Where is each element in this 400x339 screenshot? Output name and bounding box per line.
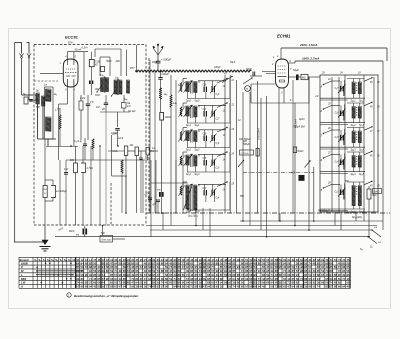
antenna input jack 1: [15, 43, 24, 96]
svg-text:98: 98: [249, 285, 253, 289]
svg-text:Bestimmungszeichen „a“ dEmpfan: Bestimmungszeichen „a“ dEmpfangsgeraten: [74, 294, 139, 298]
svg-text:74: 74: [148, 285, 152, 289]
svg-text:66: 66: [266, 281, 270, 285]
capacitor C8 200uF: [158, 71, 163, 90]
wire rect row links: [108, 150, 158, 152]
noise filter box 5nF1000: [100, 226, 125, 243]
decoupling capacitor block 500uF: [291, 172, 305, 181]
wire risers bottom mid: [143, 160, 183, 213]
row wires L3: [183, 128, 230, 148]
component box REPULS: [240, 150, 254, 155]
svg-text:500μF BM: 500μF BM: [294, 126, 305, 129]
svg-text:73: 73: [275, 285, 279, 289]
oscillator switch right SR3b: [364, 126, 380, 133]
switch end S8: [367, 236, 381, 249]
svg-text:94: 94: [258, 269, 262, 273]
svg-text:Sp₃4: Sp₃4: [351, 173, 357, 176]
svg-text:12nF: 12nF: [118, 138, 124, 140]
oscillator row wires 1: [320, 79, 365, 101]
bus drop wires: [151, 208, 369, 237]
band switch contact SL2: [217, 102, 235, 112]
input winding arrow 3: [179, 131, 185, 142]
bus wire y225.5: [146, 225, 377, 227]
antenna coil L2: [42, 96, 45, 106]
svg-text:47: 47: [203, 285, 207, 289]
oscillator winding labels 5: [351, 211, 365, 213]
svg-text:66: 66: [161, 261, 165, 265]
ground symbol: [40, 225, 51, 251]
wavy bus feed wire: [136, 45, 138, 71]
tube V2 ECH81 envelope: [276, 59, 289, 88]
svg-text:4,8: 4,8: [127, 105, 131, 108]
capacitor C6 0.1uF: [74, 138, 87, 160]
switch M1 arm: [243, 77, 253, 84]
svg-text:58: 58: [211, 285, 215, 289]
V2 electrodes: [278, 66, 287, 82]
svg-text:98: 98: [334, 285, 338, 289]
svg-text:+M: +M: [315, 96, 318, 98]
resistor R5b near osc: [293, 147, 304, 153]
capacitor CL51: [203, 187, 208, 196]
input winding arrow 4: [179, 156, 185, 167]
bus wires center: [243, 81, 267, 213]
wires coil assembly: [36, 95, 56, 146]
padder capacitor RB 550uF: [243, 140, 250, 146]
capacitor C11 pair: [139, 151, 143, 213]
row wires L1: [183, 79, 230, 99]
capacitor CL11: [203, 85, 208, 93]
wires R8/C14: [45, 139, 53, 225]
capacitor C15 4.7k bracket: [81, 146, 93, 226]
oscillator left risers: [295, 77, 314, 213]
svg-text:1kAO: 1kAO: [374, 191, 380, 194]
trim capacitor CL12: [210, 85, 220, 97]
band transformer core 2: [191, 105, 193, 118]
oscillator switch right SR4b: [364, 151, 380, 158]
table header row text: [20, 258, 351, 262]
svg-text:74: 74: [232, 285, 236, 289]
band coil L2a (variable): [184, 105, 193, 117]
resistor R3 1000: [160, 113, 171, 214]
capacitor C4 12nF: [112, 129, 120, 147]
winding labels row 4: [186, 174, 200, 176]
oscillator padder capacitor CR4: [335, 158, 346, 167]
winding labels row 1: [186, 101, 200, 103]
svg-text:65: 65: [127, 281, 131, 285]
svg-text:49: 49: [203, 277, 207, 281]
svg-text:60nF: 60nF: [69, 230, 75, 233]
svg-text:65: 65: [114, 285, 118, 289]
svg-text:58: 58: [296, 285, 300, 289]
oscillator coil LR4a: [352, 156, 355, 168]
capacitor C1.1nF loop: [111, 132, 128, 213]
capacitor CL21: [203, 109, 208, 117]
row wires L4: [183, 152, 230, 172]
oscillator core marks 4: [356, 157, 357, 165]
resistor R7 10k: [130, 145, 139, 213]
svg-text:95: 95: [216, 285, 220, 289]
oscillator row wires 4: [320, 152, 365, 174]
trim capacitor CL42: [210, 158, 220, 170]
oscillator row wires 3: [320, 128, 365, 150]
oscillator coil LR1b: [358, 82, 361, 94]
svg-text:59: 59: [186, 285, 190, 289]
oscillator winding labels 4: [351, 173, 365, 176]
svg-text:RM: RM: [239, 138, 243, 141]
svg-text:Sp₁3: Sp₁3: [186, 174, 192, 176]
wire row y146: [46, 146, 78, 148]
svg-text:1,1nF: 1,1nF: [111, 132, 118, 135]
winding labels row 5: [186, 211, 200, 214]
table caption circled 1: [67, 293, 71, 298]
capacitor CL31: [203, 134, 208, 142]
svg-text:49: 49: [346, 285, 350, 289]
capacitor C3 4.8 with resistor: [122, 95, 132, 112]
capacitor C12 50nF diag: [144, 191, 152, 213]
svg-text:0,1M: 0,1M: [80, 98, 85, 100]
V1 grid left wire: [40, 72, 63, 74]
svg-text:240V, 1,5mA: 240V, 1,5mA: [299, 43, 317, 47]
svg-text:Sp₂2: Sp₂2: [195, 150, 201, 152]
svg-text:6,3V≈: 6,3V≈: [82, 46, 89, 49]
table group separator lines: [76, 257, 329, 288]
shield stub (dashed): [34, 80, 58, 82]
svg-text:Sp₂3: Sp₂3: [195, 174, 201, 176]
trim capacitor CL52: [210, 188, 220, 200]
svg-text:98: 98: [300, 269, 304, 273]
antenna input jack 2: [27, 43, 32, 101]
capacitor C16 1nF: [64, 160, 69, 226]
electrolytic C14 100uF: [51, 186, 67, 198]
svg-text:88: 88: [195, 285, 199, 289]
V2 grid wires left: [262, 72, 276, 74]
capacitor C17 60nF: [69, 226, 87, 237]
misc value labels sprinkle: [36, 61, 361, 218]
svg-text:85: 85: [279, 273, 283, 277]
coil L6 scribble: [121, 160, 123, 213]
svg-text:≈ 500μF: ≈ 500μF: [161, 58, 172, 62]
capacitor C13 50nF diag: [152, 200, 160, 213]
capacitor C5: [86, 95, 94, 140]
capacitor black below R1: [89, 81, 93, 85]
capacitor C10 50uF right: [289, 68, 302, 80]
wire antenna to coils: [22, 95, 37, 100]
page border frame: [9, 29, 391, 309]
svg-text:100Ω: 100Ω: [165, 116, 171, 119]
capacitor C9 50uF left of V2: [246, 67, 262, 76]
trim capacitor CL22: [210, 109, 220, 121]
svg-text:L77: L77: [55, 108, 60, 112]
supply rail 240V: [281, 43, 387, 61]
band coil L1b: [194, 82, 197, 93]
winding labels row 2: [186, 125, 200, 127]
svg-text:5kΩ/1: 5kΩ/1: [298, 151, 305, 153]
svg-text:74: 74: [342, 277, 346, 281]
wire risers lower-left: [60, 112, 106, 226]
svg-text:74: 74: [317, 285, 321, 289]
oscillator coil LR5a: [352, 186, 355, 206]
resistor R2: [79, 95, 83, 140]
capacitor C7 500pF antenna: [156, 58, 172, 72]
bus start junction: [135, 70, 137, 72]
svg-text:1a₄: 1a₄: [115, 77, 119, 80]
svg-text:65: 65: [199, 285, 203, 289]
svg-text:1a₆: 1a₆: [124, 99, 128, 101]
svg-text:98: 98: [106, 277, 110, 281]
svg-text:94: 94: [292, 285, 296, 289]
tube V1 ECC81 envelope: [63, 59, 78, 87]
svg-text:ECH81: ECH81: [277, 34, 291, 39]
band coil L4b: [194, 155, 197, 166]
svg-text:88: 88: [279, 285, 283, 289]
svg-text:189,53mA: 189,53mA: [257, 128, 261, 140]
resistor R9 600: [70, 146, 78, 226]
svg-text:94: 94: [173, 285, 177, 289]
svg-text:50μF: 50μF: [230, 62, 236, 64]
resistor R4 boxed: [301, 74, 320, 79]
svg-text:73: 73: [106, 285, 110, 289]
coil L79: [159, 88, 167, 112]
winding labels row 3: [186, 150, 200, 152]
svg-text:85: 85: [157, 285, 161, 289]
svg-text:Sp₁0: Sp₁0: [186, 101, 192, 103]
coil L5 scribble: [59, 108, 61, 146]
svg-text:500μF: 500μF: [244, 138, 251, 141]
svg-text:Sp₁₉ Sp₂₉: Sp₁₉ Sp₂₉: [188, 216, 198, 218]
switch S1b: [111, 90, 116, 97]
oscillator core marks 3: [356, 132, 357, 140]
svg-text:S₈: S₈: [360, 248, 363, 251]
input winding arrow 1: [179, 82, 185, 93]
svg-text:66: 66: [254, 285, 258, 289]
AVC wavy bus wire: [136, 70, 251, 72]
svg-text:em: em: [76, 235, 79, 237]
V1 pin wires: [59, 87, 74, 160]
svg-text:47: 47: [182, 265, 186, 269]
trim capacitor CL32: [210, 134, 220, 146]
svg-text:1a₉: 1a₉: [164, 93, 168, 96]
svg-text:95: 95: [279, 265, 283, 269]
svg-text:48: 48: [237, 285, 241, 289]
V1 electrodes: [65, 52, 77, 87]
wire riser x150: [149, 60, 151, 160]
svg-text:B77: B77: [130, 66, 135, 70]
capacitor C2 4.8: [102, 95, 108, 112]
svg-text:59: 59: [144, 285, 148, 289]
svg-text:47: 47: [119, 285, 123, 289]
wire riser x155: [154, 71, 156, 213]
svg-text:73: 73: [300, 277, 304, 281]
svg-text:85: 85: [169, 281, 173, 285]
meter M1 circle: [245, 86, 251, 92]
svg-text:98: 98: [165, 285, 169, 289]
svg-text:57: 57: [245, 285, 249, 289]
label 60nF arrow: [59, 227, 65, 232]
band coil L4a (variable): [184, 154, 193, 166]
svg-text:50μF: 50μF: [293, 68, 299, 72]
junction dots on buses: [102, 212, 370, 237]
chassis line (dash-dot): [146, 212, 390, 214]
svg-text:49: 49: [93, 285, 97, 289]
wire row5 left: [151, 160, 188, 213]
svg-text:98: 98: [81, 285, 85, 289]
resistor R1 C1B42: [89, 52, 100, 95]
oscillator padder capacitor CR5: [335, 188, 346, 197]
bandfilter transformer T2: [114, 79, 122, 95]
resistor R5 on bus: [256, 149, 259, 157]
capacitor C18 500 black: [157, 190, 164, 197]
svg-text:65: 65: [321, 273, 325, 277]
row wires L2: [183, 103, 230, 123]
band switch contact SL3: [217, 127, 235, 137]
svg-text:94: 94: [237, 265, 241, 269]
svg-text:39: 39: [245, 277, 249, 281]
svg-text:85: 85: [241, 285, 245, 289]
svg-text:S₂: S₂: [370, 246, 373, 249]
svg-text:94: 94: [123, 285, 127, 289]
svg-text:48: 48: [313, 261, 317, 265]
coil L80: [170, 75, 177, 213]
band switch contact SL5: [217, 181, 235, 191]
oscillator switch left SR4: [320, 153, 332, 163]
IF shield wall (dashed): [148, 58, 150, 213]
svg-text:57: 57: [161, 285, 165, 289]
svg-text:57: 57: [76, 285, 80, 289]
svg-text:48: 48: [152, 285, 156, 289]
V2 screen wire to 100V rail: [289, 57, 384, 64]
table value cells texture: [76, 261, 350, 288]
svg-text:39: 39: [220, 285, 224, 289]
wire riser bus top: [84, 49, 127, 95]
bus wire y230: [150, 229, 372, 231]
oscillator winding labels 2: [351, 125, 365, 127]
svg-text:C.PULS: C.PULS: [241, 153, 249, 155]
oscillator row wires 2: [320, 103, 365, 125]
labels 1a2 1a4: [100, 74, 119, 80]
svg-text:5nF: 5nF: [101, 233, 106, 235]
svg-text:C₉ 0,1μ: C₉ 0,1μ: [74, 140, 83, 143]
svg-text:97V≈: 97V≈: [68, 42, 74, 45]
svg-text:47: 47: [287, 285, 291, 289]
band coil L5a (variable): [184, 184, 193, 210]
oscillator padder capacitor CR2: [335, 109, 346, 118]
antenna coil L1: [36, 93, 39, 104]
svg-text:1a₃: 1a₃: [54, 94, 58, 96]
junction dots mid: [70, 145, 119, 147]
dipole antenna symbol: [153, 44, 163, 62]
oscillator coil LR5b: [358, 186, 361, 206]
oscillator right bus x383: [382, 61, 384, 230]
oscillator unit enclosure: [320, 75, 378, 212]
oscillator coil LR2a: [352, 107, 355, 119]
oscillator internal bus wires: [332, 75, 374, 212]
svg-text:73: 73: [190, 285, 194, 289]
svg-text:85: 85: [258, 261, 262, 265]
input winding arrow 5: [179, 186, 185, 197]
capacitor C19 0.1: [146, 148, 154, 161]
oscillator row wires 5: [320, 182, 365, 211]
band transformer core 1: [191, 81, 193, 94]
svg-text:95: 95: [85, 273, 89, 277]
svg-text:S₁: S₁: [34, 258, 37, 262]
oscillator switch right SR5b: [364, 181, 380, 188]
table band dots and range arrows: [36, 263, 83, 284]
alignment table grid: [19, 257, 351, 288]
band switch bus wires: [225, 75, 236, 213]
svg-text:57: 57: [330, 285, 334, 289]
svg-text:M: M: [246, 89, 248, 91]
band coil L3b: [194, 131, 197, 142]
label 200uF: [161, 72, 170, 76]
band switch contact SL1: [217, 78, 235, 88]
svg-text:94: 94: [148, 277, 152, 281]
labels bottom oscillator: [318, 210, 362, 220]
svg-text:Sp₂1: Sp₂1: [195, 125, 201, 127]
oscillator core marks 2: [356, 108, 357, 116]
switch end S2: [371, 226, 381, 237]
band transformer core 5: [191, 184, 193, 211]
svg-text:58: 58: [224, 281, 228, 285]
V2 pin drop wires: [279, 80, 293, 221]
svg-text:36nF: 36nF: [106, 60, 112, 63]
bandfilter transformer T1: [101, 77, 109, 93]
band transformer core 3: [191, 130, 193, 143]
svg-text:95: 95: [131, 285, 135, 289]
V2 anode wire to 240V rail: [277, 48, 281, 59]
svg-text:Ha 4μF: Ha 4μF: [128, 110, 136, 113]
shield box antenna/RF section (dashed): [34, 45, 146, 226]
oscillator coil LR4b: [358, 156, 361, 168]
input winding arrow 2: [179, 107, 185, 118]
capacitor CL41: [203, 158, 208, 166]
svg-text:48: 48: [203, 269, 207, 273]
svg-text:41m4: 41m4: [75, 49, 82, 52]
oscillator switch right SR2b: [364, 102, 380, 109]
svg-text:M+Δ: M+Δ: [113, 150, 118, 153]
inner shield divider (dashed): [110, 183, 112, 225]
bus wire y221: [240, 220, 383, 222]
oscillator switch right SR1b: [364, 77, 380, 84]
oscillator core marks 5: [356, 187, 357, 195]
table row labels: [21, 261, 28, 288]
svg-text:3kΩ: 3kΩ: [372, 194, 377, 197]
capacitor C1 36nF: [101, 67, 105, 72]
svg-text:66: 66: [338, 285, 342, 289]
oscillator switch left SR5: [320, 183, 332, 193]
svg-text:Sp₃2: Sp₃2: [351, 125, 357, 127]
svg-text:59: 59: [313, 285, 317, 289]
svg-text:39: 39: [304, 285, 308, 289]
svg-text:RB 550μF: RB 550μF: [318, 210, 330, 213]
V2 pin numbers: [271, 56, 292, 95]
band coil L5b: [194, 185, 197, 210]
svg-text:49: 49: [178, 285, 182, 289]
boxed label 1EAO: [373, 189, 382, 194]
svg-text:59: 59: [182, 273, 186, 277]
oscillator switch left SR2: [320, 104, 332, 114]
svg-text:86: 86: [140, 285, 144, 289]
band coil L3a (variable): [184, 130, 193, 142]
svg-text:500μF: 500μF: [243, 143, 250, 146]
oscillator padder capacitor CR1: [335, 84, 346, 93]
earth return wire left: [14, 43, 45, 243]
svg-text:Sp₁1: Sp₁1: [186, 125, 192, 127]
svg-text:100V, 2,7mA: 100V, 2,7mA: [302, 57, 319, 61]
oscillator winding labels 1: [351, 101, 365, 103]
oscillator winding labels 3: [351, 149, 365, 152]
svg-text:400: 400: [116, 60, 121, 63]
svg-text:MΩ: MΩ: [302, 77, 306, 79]
